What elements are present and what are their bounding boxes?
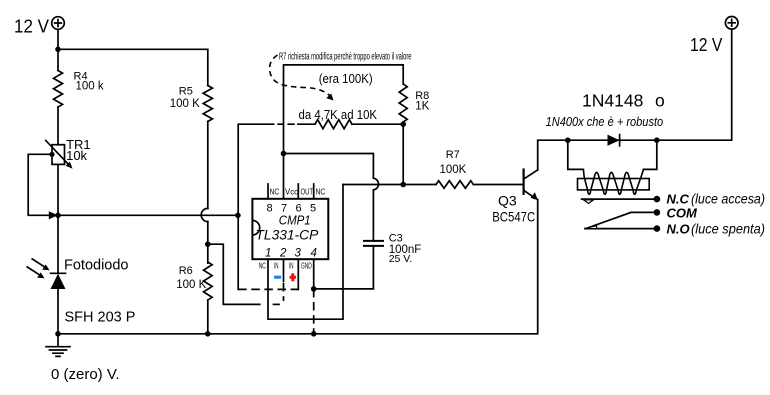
node rail pin4 [311,331,317,337]
svg-text:N.C: N.C [667,192,690,207]
wire R5 down with hop over wiper wire [207,121,209,263]
svg-text:da 4,7K ad 10K: da 4,7K ad 10K [299,107,378,122]
wire pin2 [283,259,285,281]
node R8/10K junction [400,121,406,127]
svg-text:N.O: N.O [667,222,690,237]
svg-text:R6: R6 [179,265,193,277]
wire R6 to rail [207,300,209,334]
svg-text:1K: 1K [415,100,429,112]
node R8 bottom junction [400,182,406,188]
wire dashed to IN+ [238,288,298,290]
wire divider tap route to IN- [208,244,260,304]
pin stubs top [268,184,314,199]
contact N.C line [582,198,657,200]
node diode left [565,137,571,143]
svg-text:5: 5 [310,203,316,215]
svg-text:0 (zero) V.: 0 (zero) V. [51,366,120,383]
pin labels top [270,187,326,197]
node wiper/feedback junction [235,213,241,219]
svg-text:Fotodiodo: Fotodiodo [64,258,129,274]
svg-text:NC: NC [270,187,280,197]
node TR1/photodiode junction [55,213,61,219]
svg-text:SFH 203 P: SFH 203 P [65,310,136,326]
wire OUT node to base [343,184,436,186]
svg-text:(luce spenta): (luce spenta) [691,222,765,237]
svg-text:1N4148: 1N4148 [582,91,643,111]
svg-text:100 K: 100 K [176,279,206,291]
N.C contact tip [584,200,594,204]
svg-text:R7 richiesta modifica perché t: R7 richiesta modifica perché troppo elev… [279,52,412,63]
pin numbers top 8 7 6 5 [267,203,317,215]
svg-text:IN: IN [274,261,279,271]
wire emitter down to rail [58,200,538,334]
pin labels bottom [259,261,312,271]
wire pin3 [297,259,299,289]
svg-text:OUT: OUT [301,187,314,197]
wire wiper loop [28,154,52,215]
wire R8 bottom [402,122,404,185]
svg-text:GND: GND [301,261,312,271]
12V supply terminal right [725,17,738,30]
svg-text:4: 4 [311,248,317,260]
resistor R6 [204,262,213,300]
svg-text:1N400x che è + robusto: 1N400x che è + robusto [546,114,664,129]
wire collector up [538,140,568,170]
svg-text:1: 1 [265,248,271,260]
wire pin1 OUT route [268,185,343,320]
wire C3 bottom to pin4 [314,246,374,289]
wire TR1 wiper horizontal [58,214,238,216]
pin numbers bottom 1 2 3 4 italic [265,248,317,260]
resistor hysteresis da 4,7K ad 10K (dashed left) [239,123,315,125]
op-amp U1 CMP1 TL331-CP [252,199,328,259]
svg-text:25 V.: 25 V. [389,253,413,265]
annotation dashed arrow [270,55,330,96]
relay coil K1 [578,179,650,190]
node ground junction [55,331,61,337]
svg-text:100K: 100K [440,164,467,176]
wire 12V right rail [568,29,732,140]
svg-text:NC: NC [316,187,326,197]
svg-text:(era 100K): (era 100K) [319,72,373,86]
svg-text:3: 3 [295,248,302,260]
svg-text:R7: R7 [446,149,460,161]
resistor R4 [54,71,63,108]
svg-text:IN: IN [289,261,294,271]
svg-text:TL331-CP: TL331-CP [256,228,319,243]
svg-text:o: o [655,91,665,111]
wiper arrow into node [49,211,58,219]
svg-text:2: 2 [279,248,287,260]
12V supply terminal left [52,17,65,30]
svg-text:COM: COM [667,206,699,221]
contact COM armature [589,212,657,227]
svg-text:Q3: Q3 [498,193,517,209]
wire Vcc to C3 with hop [284,154,374,241]
wire top rail to R5 [58,49,208,85]
node diode right [654,137,660,143]
potentiometer TR1 [46,140,73,168]
svg-text:NC: NC [259,261,266,271]
wire TR1 down to photodiode [57,164,59,333]
node pin4/C3 [311,286,317,292]
photodiode SFH203P [51,273,66,289]
resistor R5 [203,86,212,122]
plus mark pin3 [290,273,297,281]
node divider tap [205,241,211,247]
wire hop [201,208,208,221]
svg-text:R5: R5 [179,86,193,98]
minus mark pin2 [274,276,281,279]
transistor Q3 BC547C [524,168,538,200]
node junction 12V rail [55,47,61,53]
wire top left vertical [57,30,59,71]
diode 1N4148 [608,135,620,146]
svg-text:10k: 10k [66,148,87,163]
wiper tap dot [49,152,54,157]
svg-text:8: 8 [267,203,273,215]
resistor R8 [399,84,407,122]
svg-text:(luce accesa): (luce accesa) [691,192,765,207]
ground symbol [46,334,70,357]
light arrows [27,259,50,279]
wire pin4 dashed to rail [313,289,315,334]
resistor R7 [436,181,473,189]
wire pin4 GND [313,259,315,289]
contact N.O line [585,228,657,230]
svg-text:12 V: 12 V [14,15,50,36]
wire feedback vertical [237,124,239,289]
wire R4 to TR1 [57,107,59,145]
svg-text:CMP1: CMP1 [279,214,311,228]
wire Vcc top rail [284,65,404,199]
svg-text:100 K: 100 K [170,98,200,110]
svg-text:Vcc: Vcc [285,187,299,197]
svg-text:100 k: 100 k [76,81,104,93]
svg-text:12 V: 12 V [690,35,722,55]
node Vcc/C3 [281,151,287,157]
svg-text:BC547C: BC547C [492,209,535,225]
relay coil leads [568,140,657,169]
node R6 rail [205,331,211,337]
svg-text:C3: C3 [389,233,403,245]
capacitor C3 [363,241,384,246]
N.O contact tip [584,226,596,229]
